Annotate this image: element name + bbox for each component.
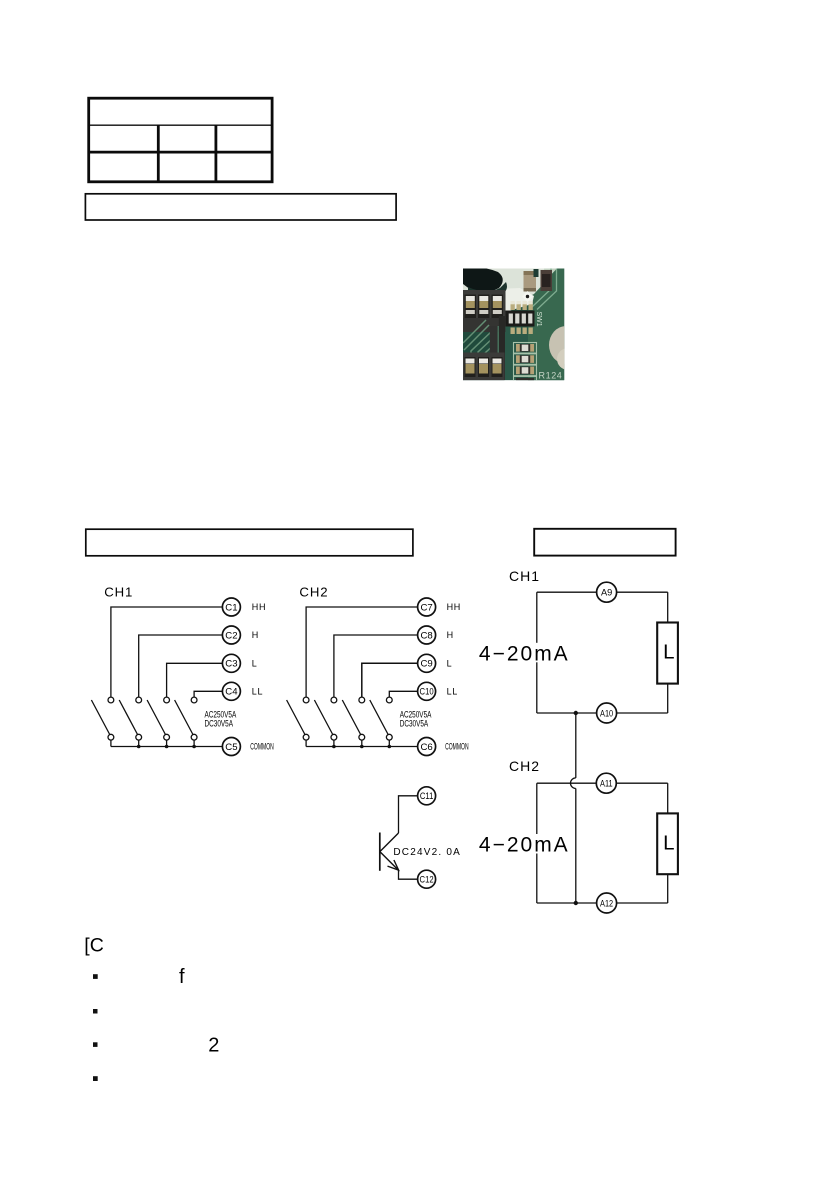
svg-text:R124: R124 <box>539 371 563 381</box>
switch pole 3 upper contact (CH2) <box>359 697 365 703</box>
common bus wire to C5 <box>111 746 222 748</box>
svg-text:A9: A9 <box>601 588 612 598</box>
dark SMD component <box>541 270 553 291</box>
svg-text:DC24V2. 0A: DC24V2. 0A <box>393 847 461 858</box>
stub pole1 to bus <box>110 740 112 746</box>
svg-text:C10: C10 <box>420 686 434 697</box>
switch blade 3 <box>147 700 166 735</box>
svg-text:C4: C4 <box>225 687 238 698</box>
svg-text:DC30V5A: DC30V5A <box>400 719 429 729</box>
label 4-20mA (CH1) <box>478 643 570 663</box>
board base <box>463 269 564 381</box>
svg-text:C9: C9 <box>420 659 432 670</box>
terminal A11 <box>596 773 616 793</box>
junction dot A12 bus <box>574 901 578 905</box>
wire hop over CH2 top wire <box>571 778 576 789</box>
DIP switch SW1 upper pins <box>511 304 533 311</box>
svg-text:SW1: SW1 <box>535 312 542 327</box>
svg-text:LL: LL <box>252 687 263 697</box>
section title box left <box>86 529 413 556</box>
IC socket top-left <box>463 290 506 332</box>
right wire down to load (CH2) <box>667 783 669 813</box>
silkscreen diamond with dot <box>522 291 533 302</box>
wire contact3 to C3 <box>167 663 223 697</box>
wire contact1 to C1 <box>111 607 222 697</box>
relay contact output CH1 <box>91 584 273 755</box>
switch pole 2 upper contact (CH2) <box>331 697 337 703</box>
svg-text:4−20mA: 4−20mA <box>479 642 570 665</box>
junction dot bus pole3 <box>165 745 169 749</box>
svg-text:HH: HH <box>252 602 266 612</box>
junction dot bus pole2 (CH2) <box>332 745 336 749</box>
top wire left segment <box>537 591 597 593</box>
DIP switch SW1 lower pins <box>511 328 533 335</box>
svg-text:4−20mA: 4−20mA <box>479 834 570 857</box>
bottom wire left segment <box>537 712 597 714</box>
switch blade 2 <box>119 700 138 735</box>
svg-text:C12: C12 <box>420 874 434 885</box>
terminal A12 <box>597 893 617 913</box>
switch pole 1 lower contact <box>108 734 114 740</box>
switch pole 4 lower contact (CH2) <box>386 734 392 740</box>
svg-text:L: L <box>663 641 674 664</box>
switch pole 1 upper contact (CH2) <box>303 697 309 703</box>
switch blade 1 (CH2) <box>287 700 306 735</box>
top right corner silk <box>544 269 557 282</box>
switch pole 4 upper contact <box>191 697 197 703</box>
wire C11 to collector <box>399 796 418 833</box>
bottom wire left segment (CH2) <box>537 902 597 904</box>
svg-text:COMMON: COMMON <box>445 741 468 752</box>
switch pole 4 upper contact (CH2) <box>386 697 392 703</box>
analog output CH1 loop <box>478 568 678 903</box>
terminal C9 <box>418 654 436 672</box>
wire contact4 to C10 <box>389 691 417 697</box>
stub pole2 to bus <box>138 740 140 746</box>
svg-text:COMMON: COMMON <box>250 741 273 752</box>
switch blade 4 (CH2) <box>370 700 389 735</box>
terminal A10 <box>597 703 617 723</box>
top wire right segment <box>617 591 668 593</box>
DIP switch SW1 body <box>506 311 535 327</box>
trace outline octagon corner <box>532 269 557 310</box>
junction dot bus pole2 <box>137 745 141 749</box>
top silkscreen wash <box>463 269 547 306</box>
svg-text:A10: A10 <box>600 708 613 719</box>
bottom wire right segment <box>617 712 668 714</box>
load resistor L (CH2) <box>657 813 678 874</box>
svg-text:HH: HH <box>447 602 461 612</box>
emitter arrowhead <box>388 860 399 870</box>
bullet 1 <box>93 974 98 979</box>
svg-text:LL: LL <box>447 687 458 697</box>
resistor array silk boxes <box>514 343 537 388</box>
svg-text:L: L <box>663 831 674 854</box>
load to bottom wire <box>667 684 669 713</box>
svg-text:C3: C3 <box>225 659 237 670</box>
bullet 2 <box>93 1009 98 1014</box>
switch pole 2 upper contact <box>136 697 142 703</box>
link wire down to CH2 bottom <box>575 789 577 904</box>
wire contact2 to C8 <box>334 635 418 697</box>
IC socket bottom-left <box>463 353 505 381</box>
rating text AC250V5A DC30V5A <box>205 709 237 729</box>
label 4-20mA (CH2) <box>478 834 570 854</box>
stub pole1 to bus (CH2) <box>305 740 307 746</box>
terminal C2 <box>222 626 240 644</box>
stub pole3 to bus <box>166 740 168 746</box>
wire emitter to C12 <box>399 870 418 879</box>
svg-text:H: H <box>447 630 454 640</box>
svg-text:C1: C1 <box>225 602 237 613</box>
switch pole 3 upper contact <box>164 697 170 703</box>
right board area <box>528 269 564 381</box>
svg-text:CH1: CH1 <box>104 584 133 599</box>
svg-text:CH1: CH1 <box>509 568 540 584</box>
section title box right <box>534 529 675 556</box>
left loop wire CH1 <box>536 592 538 713</box>
spec table <box>89 98 272 182</box>
bullet 4 <box>93 1076 98 1081</box>
svg-text:CH2: CH2 <box>299 584 328 599</box>
terminal A9 <box>597 582 617 602</box>
svg-text:C7: C7 <box>420 602 432 613</box>
top wire right segment (CH2) <box>616 782 667 784</box>
common bus wire to C6 <box>306 746 418 748</box>
switch pole 3 lower contact (CH2) <box>359 734 365 740</box>
rating text AC250V5A DC30V5A (CH2) <box>400 709 432 729</box>
switch pole 2 lower contact (CH2) <box>331 734 337 740</box>
junction dot bus pole4 <box>192 745 196 749</box>
small green component right of switch <box>534 269 539 277</box>
stub pole4 to bus <box>193 740 195 746</box>
svg-text:C2: C2 <box>225 630 237 641</box>
relay contact output CH2 <box>287 584 469 755</box>
stub pole4 to bus (CH2) <box>388 740 390 746</box>
terminal C8 <box>418 626 436 644</box>
diagonal traces <box>463 320 496 364</box>
svg-text:C8: C8 <box>420 630 432 641</box>
transistor base bar Q1 <box>379 833 381 871</box>
svg-text:A11: A11 <box>600 778 613 789</box>
junction dot bus pole3 (CH2) <box>360 745 364 749</box>
transistor open collector output <box>380 787 461 888</box>
wire contact1 to C7 <box>306 607 418 697</box>
socket vertical bars <box>490 326 498 380</box>
svg-text:H: H <box>252 630 258 640</box>
resistor bodies <box>516 344 534 380</box>
svg-text:L: L <box>252 659 257 669</box>
terminal C10 <box>418 682 436 700</box>
switch blade 1 <box>91 700 110 735</box>
svg-text:f: f <box>179 966 185 988</box>
switch blade 3 (CH2) <box>342 700 361 735</box>
bullet 3 <box>93 1042 98 1047</box>
terminal C3 <box>222 654 240 672</box>
terminal C12 <box>418 870 436 888</box>
gray blob right <box>549 326 583 364</box>
top wire left segment (CH2) <box>537 782 597 784</box>
stub pole2 to bus (CH2) <box>333 740 335 746</box>
link wire down from CH1 <box>575 713 577 778</box>
wire contact4 to C4 <box>194 691 222 697</box>
load to bottom wire (CH2) <box>667 874 669 903</box>
switch pole 1 lower contact (CH2) <box>303 734 309 740</box>
svg-text:C11: C11 <box>420 790 434 801</box>
svg-text:A12: A12 <box>600 898 613 909</box>
terminal C5 <box>222 738 240 756</box>
terminal C7 <box>418 598 436 616</box>
mid white band <box>463 288 534 312</box>
terminal C11 <box>418 787 436 805</box>
switch blade 4 <box>175 700 194 735</box>
collector diagonal <box>380 833 398 851</box>
bottom wire right segment (CH2) <box>617 902 668 904</box>
terminal C4 <box>222 682 240 700</box>
switch pole 2 lower contact <box>136 734 142 740</box>
junction dot bus pole4 (CH2) <box>388 745 392 749</box>
caption box upper <box>85 194 396 220</box>
junction dot A10 bus <box>574 711 578 715</box>
dark component blob top-left <box>463 267 503 292</box>
wire contact3 to C9 <box>362 663 418 697</box>
terminal C6 <box>418 738 436 756</box>
svg-text:CH2: CH2 <box>509 758 540 774</box>
switch pole 3 lower contact <box>164 734 170 740</box>
switch pole 1 upper contact <box>108 697 114 703</box>
svg-text:2: 2 <box>208 1035 219 1057</box>
tan SMD capacitor <box>524 271 537 291</box>
svg-text:L: L <box>447 659 452 669</box>
terminal C1 <box>222 598 240 616</box>
wire contact2 to C2 <box>139 635 223 697</box>
analog output CH2 loop <box>478 758 678 913</box>
svg-text:[C: [C <box>84 934 104 956</box>
stub pole3 to bus (CH2) <box>361 740 363 746</box>
board gap under socket <box>463 332 490 353</box>
svg-text:DC30V5A: DC30V5A <box>205 719 234 729</box>
svg-text:C6: C6 <box>420 742 432 753</box>
right wire down to load <box>667 592 669 622</box>
switch pole 4 lower contact <box>191 734 197 740</box>
switch blade 2 (CH2) <box>314 700 333 735</box>
svg-text:C5: C5 <box>225 742 237 753</box>
left loop wire CH2 <box>536 783 538 903</box>
load resistor L (CH1) <box>657 623 678 684</box>
emitter diagonal <box>380 852 398 870</box>
